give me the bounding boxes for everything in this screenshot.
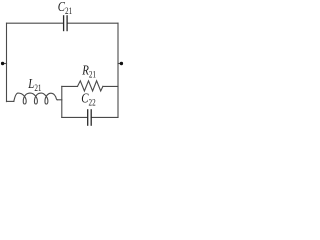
inductor L21 [14, 93, 57, 104]
wire capacitor C22 left lead [62, 116, 87, 118]
wire inductor to junction [57, 99, 62, 101]
wire right vertical [117, 23, 119, 117]
svg-text:R21: R21 [81, 62, 96, 80]
wire capacitor C22 right lead [91, 116, 118, 118]
wire bottom-left lead to inductor [7, 100, 14, 102]
svg-text:C21: C21 [58, 0, 72, 16]
wire top-right segment [67, 22, 118, 24]
wire left vertical [6, 23, 8, 101]
wire left port stub [3, 63, 7, 65]
wire right port stub [118, 63, 121, 65]
wire junction vertical [61, 86, 63, 117]
node terminal dot right [120, 62, 123, 65]
svg-text:L21: L21 [27, 76, 41, 93]
wire resistor right lead [103, 85, 118, 87]
capacitor C21 plates [63, 15, 65, 31]
capacitor C22 plates [87, 109, 89, 126]
svg-text:C22: C22 [81, 90, 95, 107]
resistor R21 [78, 81, 103, 91]
wire resistor left lead [62, 85, 78, 87]
node terminal dot left [1, 62, 4, 65]
wire top-left segment [7, 22, 64, 24]
